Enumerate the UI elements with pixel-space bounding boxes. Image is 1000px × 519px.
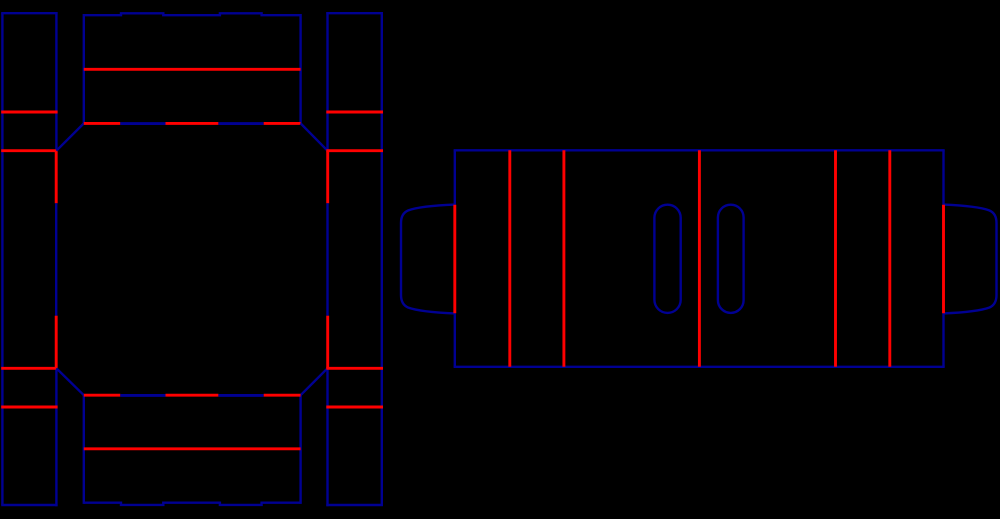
cut: outer right edge of right side column	[381, 13, 383, 505]
crease: top-right dust flap fold y=112	[326, 111, 383, 114]
cut: right edge of bottom tuck flap assembly	[299, 395, 301, 504]
cut: handle slot 1 stadium	[654, 205, 680, 313]
crease: right side wall vertical fold lower segment	[326, 316, 329, 369]
crease: left side wall vertical fold lower segment	[55, 316, 58, 369]
cut: sleeve right edge upper segment	[942, 150, 944, 205]
cut: right edge of top tuck flap assembly	[299, 14, 301, 123]
crease: right side wall bottom fold y=368.3	[326, 367, 383, 370]
cut: sleeve top edge	[454, 149, 945, 151]
crease: bottom tuck flap fold y=448.8	[84, 447, 301, 450]
cut: inner edge of top-left dust flap	[55, 12, 57, 151]
cut: chamfer diagonal top-left	[56, 123, 83, 150]
cut: chamfer diagonal top-right	[301, 123, 328, 150]
cut: top lid slit segment 1	[120, 122, 165, 125]
crease: right tuck flap fold	[942, 205, 945, 313]
cut: chamfer diagonal bottom-left	[56, 368, 83, 395]
crease: sleeve panel fold 1 x=509.8	[508, 150, 511, 366]
crease: left side wall bottom fold y=368.3	[1, 367, 57, 370]
crease: left side wall vertical fold upper segment	[55, 151, 58, 204]
crease: top tuck flap fold y=69.3	[84, 68, 301, 71]
crease: bottom lid fold segment 1	[84, 394, 121, 397]
cut: notched top edge of top tuck flap	[84, 13, 301, 15]
cut: sleeve bottom edge	[454, 366, 945, 368]
cut: sleeve left edge lower segment	[454, 313, 456, 367]
cut: bottom edge of bottom-right dust flap	[326, 504, 383, 506]
crease: top lid fold segment 2	[166, 122, 219, 125]
crease: right side wall vertical fold upper segment	[326, 151, 329, 204]
cut: sleeve right edge lower segment	[942, 313, 944, 367]
cut: handle slot 2 stadium	[718, 205, 744, 313]
cut: inner edge of bottom-left dust flap	[55, 368, 57, 506]
cut: top lid slit segment 2	[218, 122, 263, 125]
cut: left edge of top tuck flap assembly	[83, 14, 85, 123]
cut: chamfer diagonal bottom-right	[301, 368, 328, 395]
cut: left edge of bottom tuck flap assembly	[83, 395, 85, 504]
crease: bottom lid fold segment 3	[264, 394, 301, 397]
cut: right tuck flap outline	[944, 205, 997, 314]
cut: left tuck flap outline	[401, 205, 455, 314]
crease: right side wall top fold y=150.7	[326, 149, 383, 152]
cut: bottom lid slit segment 2	[218, 394, 263, 397]
crease: top lid fold segment 1	[84, 122, 121, 125]
cut: bottom lid slit segment 1	[120, 394, 165, 397]
cut: top edge of top-right dust flap	[326, 12, 383, 14]
cut: inner edge of bottom-right dust flap	[326, 368, 328, 506]
crease: sleeve panel fold 3 x=835.5	[834, 150, 837, 366]
cut: bottom edge of bottom-left dust flap	[1, 504, 57, 506]
crease: top-left dust flap fold y=112	[1, 111, 57, 114]
cut: notched bottom edge of bottom tuck flap	[84, 503, 301, 505]
cut: sleeve left edge upper segment	[454, 150, 456, 205]
crease: sleeve center fold x=699.4	[698, 150, 701, 366]
crease: bottom lid fold segment 2	[166, 394, 219, 397]
cut: left side wall vertical slit middle segment	[55, 203, 57, 315]
cut: top edge of top-left dust flap	[1, 12, 57, 14]
crease: bottom-left dust flap fold y=407	[1, 406, 57, 409]
crease: bottom-right dust flap fold y=407	[326, 406, 383, 409]
crease: sleeve panel fold 4 x=889.8	[888, 150, 891, 366]
crease: top lid fold segment 3	[264, 122, 301, 125]
crease: sleeve panel fold 2 x=563.9	[562, 150, 565, 366]
cut: inner edge of top-right dust flap	[326, 12, 328, 151]
cut: outer left edge of left side column	[1, 13, 3, 505]
cut: right side wall vertical slit middle segment	[326, 203, 328, 315]
crease: left tuck flap fold	[453, 205, 456, 313]
crease: left side wall top fold y=150.7	[1, 149, 57, 152]
